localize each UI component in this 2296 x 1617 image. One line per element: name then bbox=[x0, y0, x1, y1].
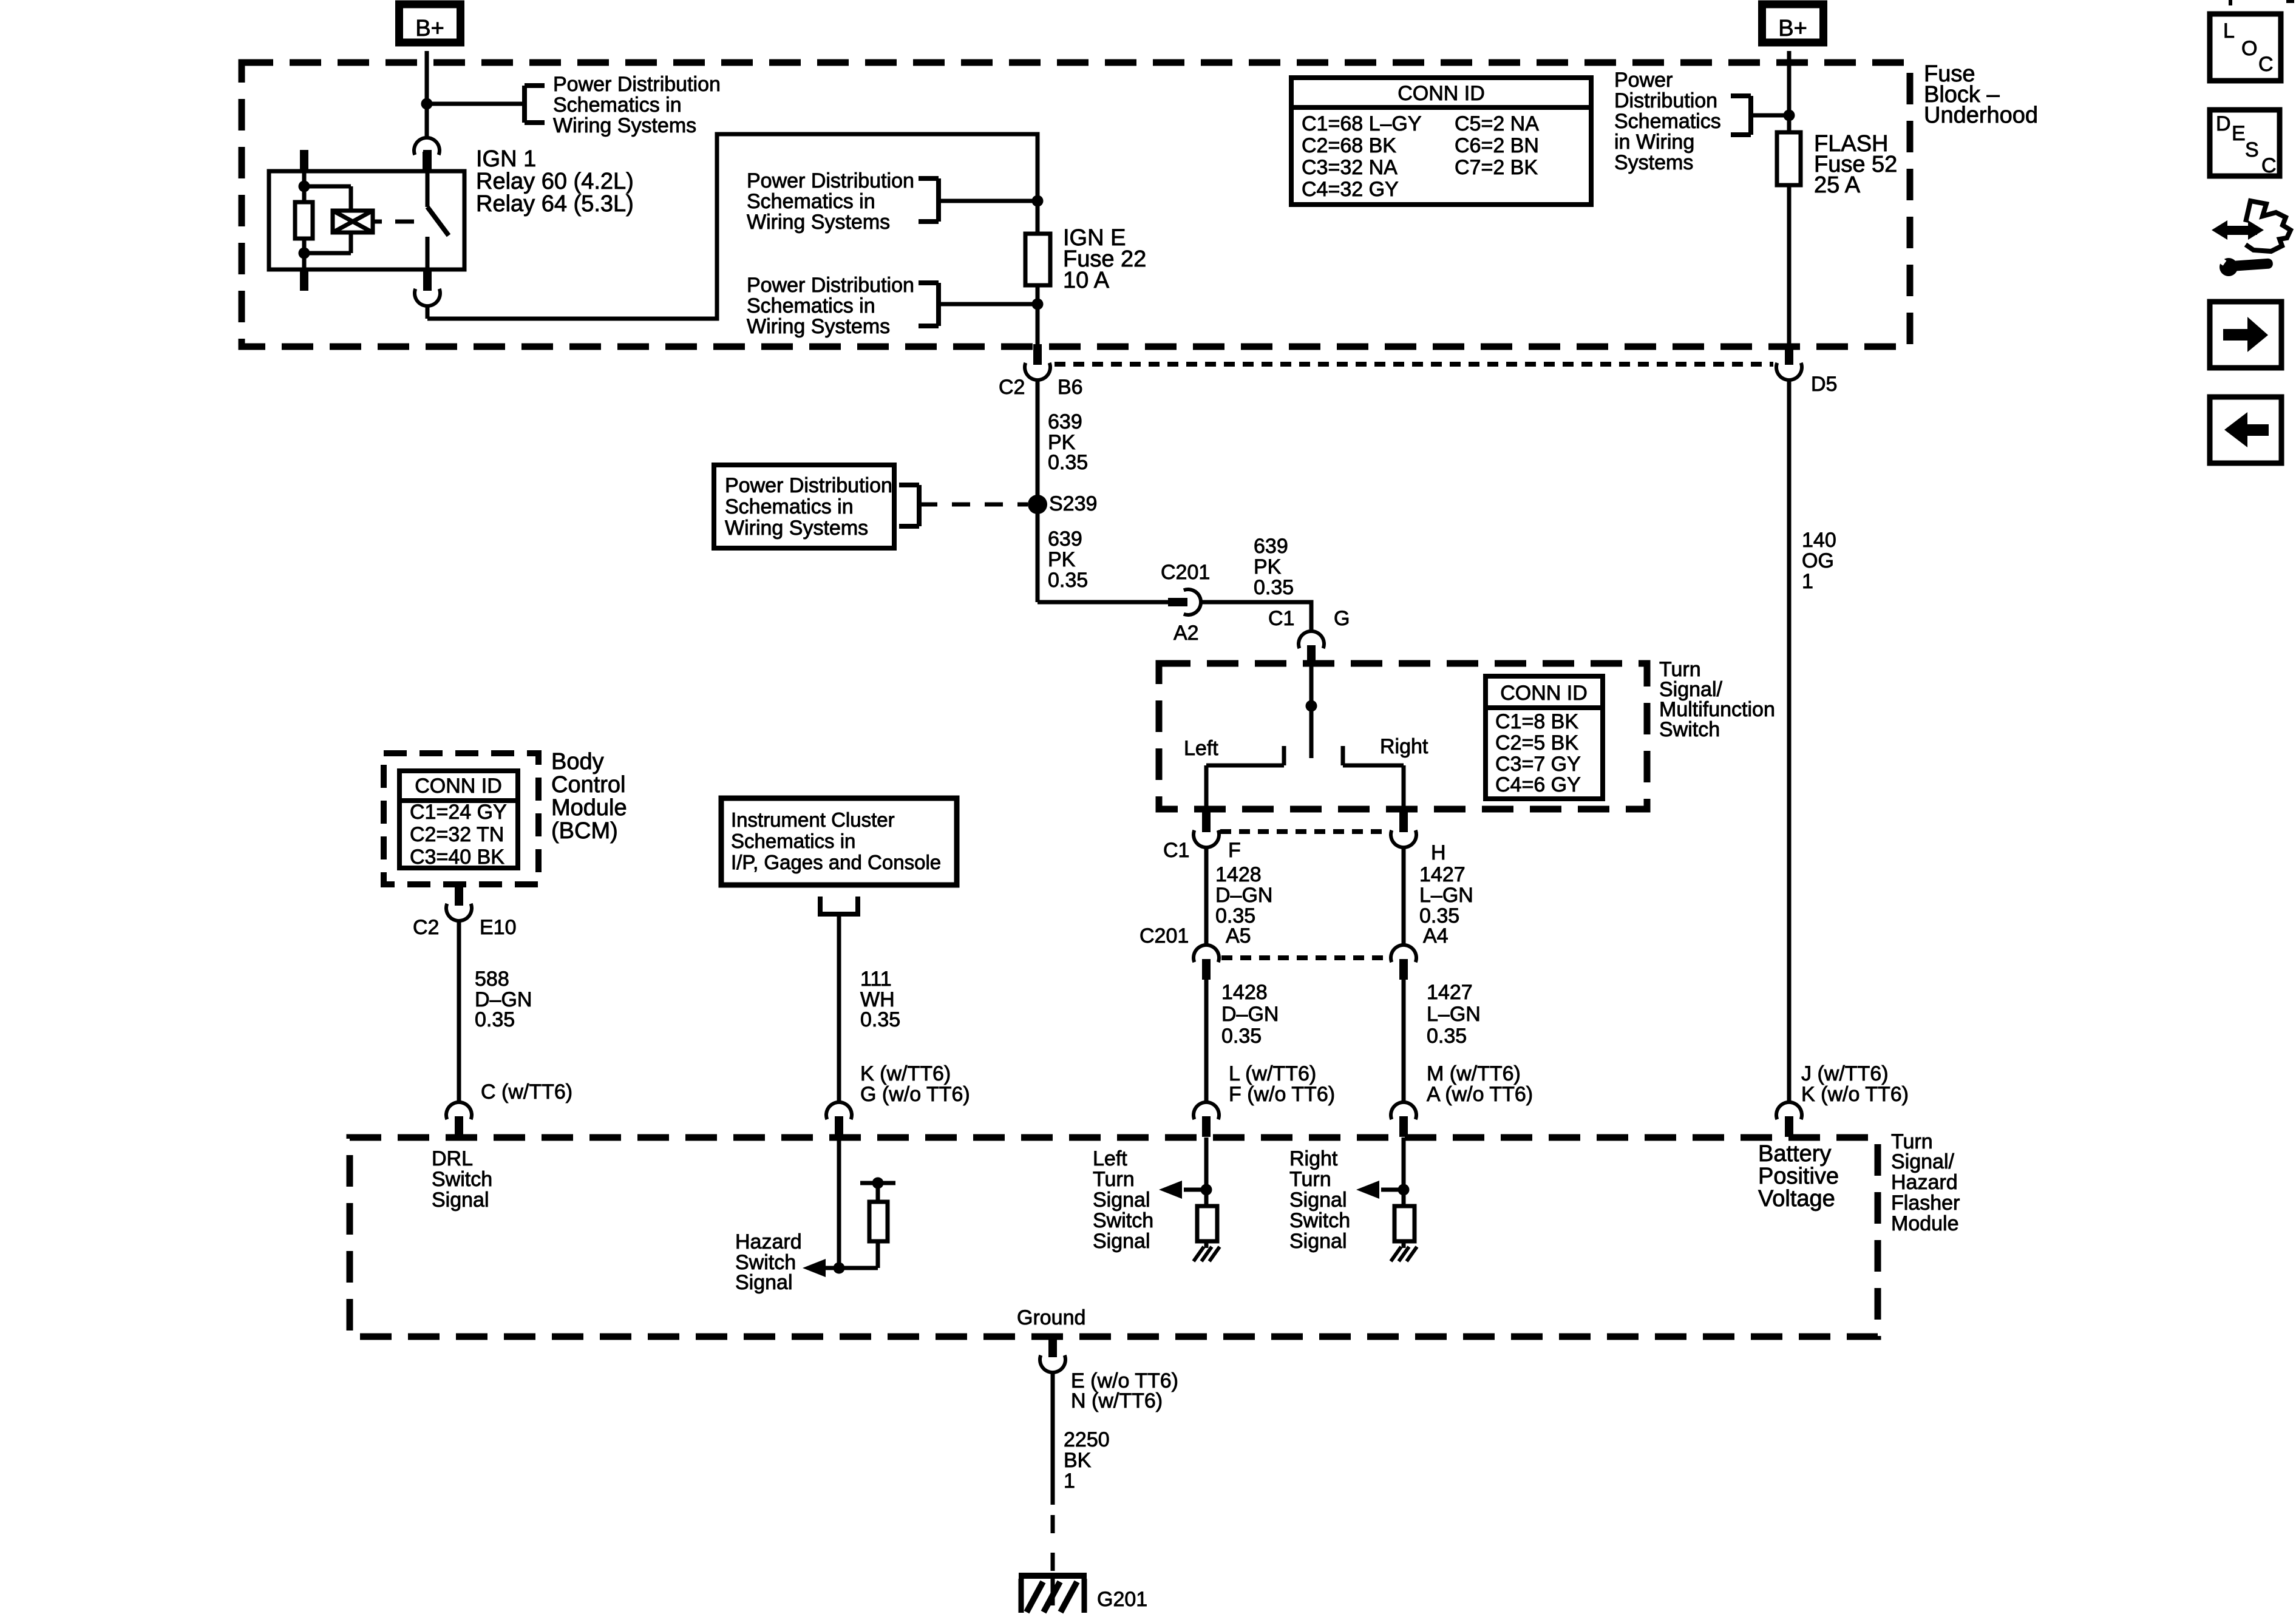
svg-text:10 A: 10 A bbox=[1063, 268, 1110, 293]
svg-text:B+: B+ bbox=[415, 16, 444, 41]
svg-text:Schematics in: Schematics in bbox=[731, 830, 855, 852]
svg-text:C1: C1 bbox=[1163, 839, 1189, 862]
svg-text:C1=8 BK: C1=8 BK bbox=[1495, 710, 1578, 733]
svg-text:G (w/o TT6): G (w/o TT6) bbox=[860, 1083, 970, 1106]
svg-text:Module: Module bbox=[1891, 1212, 1959, 1235]
svg-text:C7=2 BK: C7=2 BK bbox=[1455, 156, 1538, 179]
svg-text:Power Distribution: Power Distribution bbox=[747, 169, 914, 192]
svg-text:C2: C2 bbox=[413, 916, 439, 939]
svg-text:25 A: 25 A bbox=[1814, 172, 1861, 198]
svg-text:Schematics in: Schematics in bbox=[747, 190, 875, 213]
svg-text:D–GN: D–GN bbox=[1221, 1003, 1279, 1026]
svg-text:H: H bbox=[1431, 841, 1446, 864]
svg-text:K (w/o TT6): K (w/o TT6) bbox=[1801, 1083, 1909, 1106]
svg-text:Relay 60 (4.2L): Relay 60 (4.2L) bbox=[476, 169, 634, 194]
svg-text:C201: C201 bbox=[1140, 924, 1189, 947]
svg-text:C1=24 GY: C1=24 GY bbox=[410, 801, 507, 824]
svg-text:Control: Control bbox=[551, 772, 626, 798]
svg-text:L–GN: L–GN bbox=[1427, 1003, 1481, 1026]
svg-text:Instrument Cluster: Instrument Cluster bbox=[731, 808, 895, 831]
svg-text:1: 1 bbox=[1802, 570, 1813, 593]
svg-text:Schematics in: Schematics in bbox=[747, 294, 875, 317]
svg-text:Distribution: Distribution bbox=[1614, 89, 1717, 112]
svg-text:C: C bbox=[2261, 154, 2277, 177]
svg-text:0.35: 0.35 bbox=[860, 1008, 900, 1031]
svg-text:A5: A5 bbox=[1226, 924, 1251, 947]
svg-text:0.35: 0.35 bbox=[475, 1008, 515, 1031]
svg-text:L (w/TT6): L (w/TT6) bbox=[1229, 1062, 1316, 1085]
svg-text:O: O bbox=[2241, 37, 2257, 60]
svg-text:C4=32 GY: C4=32 GY bbox=[1302, 178, 1399, 201]
svg-text:C (w/TT6): C (w/TT6) bbox=[481, 1080, 572, 1103]
svg-text:Left: Left bbox=[1093, 1147, 1127, 1170]
svg-text:C5=2 NA: C5=2 NA bbox=[1455, 112, 1539, 135]
svg-text:C3=40 BK: C3=40 BK bbox=[410, 846, 504, 869]
svg-text:Left: Left bbox=[1184, 737, 1218, 760]
svg-text:CONN ID: CONN ID bbox=[1500, 682, 1588, 705]
svg-text:BK: BK bbox=[1064, 1449, 1092, 1472]
svg-text:D–GN: D–GN bbox=[1215, 884, 1272, 907]
svg-text:1427: 1427 bbox=[1427, 981, 1473, 1004]
svg-text:Schematics: Schematics bbox=[1614, 110, 1721, 133]
svg-text:Signal/: Signal/ bbox=[1891, 1150, 1955, 1173]
svg-text:Right: Right bbox=[1380, 735, 1428, 758]
svg-text:639: 639 bbox=[1048, 527, 1082, 551]
svg-text:Switch: Switch bbox=[1289, 1209, 1350, 1232]
svg-text:1427: 1427 bbox=[1419, 863, 1466, 886]
svg-text:Voltage: Voltage bbox=[1758, 1186, 1835, 1212]
svg-text:Battery: Battery bbox=[1758, 1141, 1831, 1167]
svg-text:C2=32 TN: C2=32 TN bbox=[410, 823, 504, 846]
svg-text:0.35: 0.35 bbox=[1048, 569, 1088, 592]
svg-text:C201: C201 bbox=[1161, 561, 1210, 584]
svg-text:Turn: Turn bbox=[1093, 1168, 1135, 1191]
svg-text:2250: 2250 bbox=[1064, 1428, 1110, 1451]
svg-text:588: 588 bbox=[475, 968, 509, 991]
svg-text:DRL: DRL bbox=[432, 1147, 473, 1170]
svg-text:(BCM): (BCM) bbox=[551, 818, 618, 844]
svg-text:Signal: Signal bbox=[432, 1188, 489, 1212]
svg-text:Switch: Switch bbox=[432, 1168, 492, 1191]
svg-text:Turn: Turn bbox=[1289, 1168, 1331, 1191]
svg-text:E10: E10 bbox=[480, 916, 517, 939]
svg-text:F: F bbox=[1228, 839, 1241, 862]
svg-text:J (w/TT6): J (w/TT6) bbox=[1801, 1062, 1889, 1085]
svg-text:Hazard: Hazard bbox=[735, 1230, 802, 1253]
svg-text:N (w/TT6): N (w/TT6) bbox=[1071, 1389, 1163, 1412]
svg-text:E: E bbox=[2232, 122, 2246, 145]
svg-text:K (w/TT6): K (w/TT6) bbox=[860, 1062, 951, 1085]
svg-text:Right: Right bbox=[1289, 1147, 1338, 1170]
svg-text:639: 639 bbox=[1048, 410, 1082, 433]
svg-text:C3=7 GY: C3=7 GY bbox=[1495, 753, 1581, 776]
svg-text:CONN ID: CONN ID bbox=[1398, 82, 1485, 105]
svg-text:C1: C1 bbox=[1268, 607, 1294, 630]
svg-text:Signal: Signal bbox=[735, 1271, 793, 1294]
svg-text:C: C bbox=[2258, 53, 2274, 76]
svg-text:639: 639 bbox=[1254, 535, 1288, 558]
svg-text:A (w/o TT6): A (w/o TT6) bbox=[1427, 1083, 1533, 1106]
svg-text:Schematics in: Schematics in bbox=[725, 495, 854, 518]
svg-text:0.35: 0.35 bbox=[1254, 576, 1294, 599]
svg-text:B+: B+ bbox=[1778, 16, 1807, 41]
svg-text:1: 1 bbox=[1064, 1470, 1075, 1493]
svg-text:D: D bbox=[2216, 112, 2231, 135]
svg-text:PK: PK bbox=[1048, 548, 1076, 571]
svg-text:Wiring Systems: Wiring Systems bbox=[725, 517, 868, 540]
svg-text:Switch: Switch bbox=[1093, 1209, 1153, 1232]
svg-text:C2=68 BK: C2=68 BK bbox=[1302, 134, 1396, 157]
svg-text:CONN ID: CONN ID bbox=[415, 775, 502, 798]
svg-text:Wiring Systems: Wiring Systems bbox=[553, 114, 696, 137]
svg-text:Power Distribution: Power Distribution bbox=[553, 73, 721, 96]
svg-text:L–GN: L–GN bbox=[1419, 884, 1473, 907]
svg-text:S239: S239 bbox=[1049, 492, 1097, 515]
svg-text:Wiring Systems: Wiring Systems bbox=[747, 315, 890, 338]
svg-text:Schematics in: Schematics in bbox=[553, 93, 682, 117]
svg-text:OG: OG bbox=[1802, 549, 1834, 572]
svg-text:Wiring Systems: Wiring Systems bbox=[747, 211, 890, 234]
svg-text:Hazard: Hazard bbox=[1891, 1171, 1958, 1194]
svg-text:Signal: Signal bbox=[1289, 1230, 1347, 1253]
svg-text:C6=2 BN: C6=2 BN bbox=[1455, 134, 1539, 157]
svg-text:S: S bbox=[2245, 138, 2259, 161]
svg-text:1428: 1428 bbox=[1221, 981, 1268, 1004]
svg-text:G: G bbox=[1334, 607, 1350, 630]
svg-text:Ground: Ground bbox=[1017, 1306, 1085, 1329]
svg-text:L: L bbox=[2223, 19, 2235, 42]
svg-text:Signal: Signal bbox=[1289, 1188, 1347, 1212]
svg-text:Positive: Positive bbox=[1758, 1164, 1839, 1189]
svg-text:C4=6 GY: C4=6 GY bbox=[1495, 773, 1581, 796]
svg-text:C2: C2 bbox=[999, 376, 1025, 399]
svg-text:M (w/TT6): M (w/TT6) bbox=[1427, 1062, 1521, 1085]
svg-text:0.35: 0.35 bbox=[1221, 1025, 1262, 1048]
svg-text:A2: A2 bbox=[1173, 622, 1199, 645]
svg-text:PK: PK bbox=[1254, 555, 1282, 578]
svg-text:in Wiring: in Wiring bbox=[1614, 131, 1694, 154]
svg-text:Power Distribution: Power Distribution bbox=[747, 274, 914, 297]
svg-text:B6: B6 bbox=[1058, 376, 1083, 399]
svg-text:C3=32 NA: C3=32 NA bbox=[1302, 156, 1398, 179]
svg-text:F (w/o TT6): F (w/o TT6) bbox=[1229, 1083, 1335, 1106]
svg-text:G201: G201 bbox=[1097, 1588, 1147, 1611]
svg-text:0.35: 0.35 bbox=[1427, 1025, 1467, 1048]
svg-text:Module: Module bbox=[551, 795, 627, 821]
svg-text:Signal: Signal bbox=[1093, 1188, 1150, 1212]
svg-text:A4: A4 bbox=[1423, 924, 1449, 947]
svg-text:Underhood: Underhood bbox=[1924, 103, 2038, 128]
svg-text:111: 111 bbox=[860, 968, 892, 991]
svg-text:C2=5 BK: C2=5 BK bbox=[1495, 731, 1578, 754]
svg-text:Switch: Switch bbox=[1659, 718, 1720, 741]
svg-text:IGN 1: IGN 1 bbox=[476, 146, 536, 172]
svg-text:C1=68 L–GY: C1=68 L–GY bbox=[1302, 112, 1422, 135]
svg-text:140: 140 bbox=[1802, 529, 1836, 552]
svg-text:Flasher: Flasher bbox=[1891, 1192, 1960, 1215]
svg-text:Power: Power bbox=[1614, 69, 1673, 92]
svg-text:Relay 64 (5.3L): Relay 64 (5.3L) bbox=[476, 191, 634, 217]
svg-text:Body: Body bbox=[551, 749, 604, 775]
svg-text:D5: D5 bbox=[1811, 373, 1837, 396]
svg-text:Signal: Signal bbox=[1093, 1230, 1150, 1253]
svg-text:Systems: Systems bbox=[1614, 151, 1693, 174]
svg-text:0.35: 0.35 bbox=[1048, 451, 1088, 474]
svg-text:I/P, Gages and Console: I/P, Gages and Console bbox=[731, 851, 941, 873]
svg-text:1428: 1428 bbox=[1215, 863, 1262, 886]
svg-text:Power Distribution: Power Distribution bbox=[725, 474, 892, 497]
